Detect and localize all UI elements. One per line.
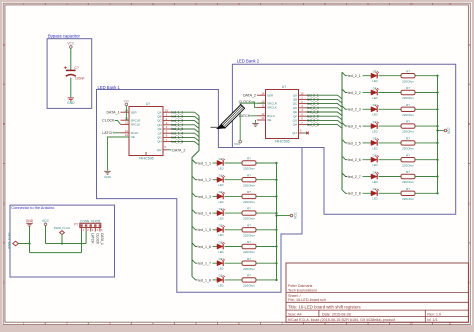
svg-text:74HC595: 74HC595	[138, 157, 153, 161]
ground GND (bypass)	[68, 98, 74, 101]
svg-text:C: C	[468, 201, 470, 205]
wire U2 SRCLR to VCC below	[240, 103, 265, 140]
U1 left pin names	[131, 110, 141, 139]
wire branch bank1 row 3	[192, 193, 198, 197]
junction bank1 row 8	[275, 279, 277, 281]
svg-text:LED: LED	[372, 113, 377, 117]
svg-text:Size: A4: Size: A4	[288, 312, 302, 316]
svg-text:QH: QH	[157, 140, 161, 144]
svg-text:D?: D?	[373, 187, 377, 191]
svg-text:LED: LED	[218, 166, 223, 170]
svg-text:CLOCK: CLOCK	[95, 233, 99, 245]
resistor R? 220Ohm bank1 row 5	[242, 228, 256, 232]
svg-text:A: A	[468, 43, 470, 47]
svg-text:led_2_7: led_2_7	[348, 175, 361, 179]
section box LED Bank 1	[97, 90, 303, 293]
svg-text:led_2_8: led_2_8	[348, 192, 361, 196]
svg-text:D?: D?	[219, 257, 223, 261]
section box Connector to the Arduino	[10, 205, 115, 277]
ground GND at U1 OE	[104, 171, 110, 174]
svg-text:13: 13	[261, 116, 265, 120]
power VCC bank1 rail	[290, 214, 293, 217]
svg-text:GND: GND	[67, 101, 75, 105]
svg-text:U?: U?	[282, 85, 286, 89]
wire LED to resistor bank1 row 3	[225, 195, 243, 197]
svg-text:R?: R?	[406, 103, 410, 107]
U2 left pins	[257, 95, 266, 120]
svg-text:R?: R?	[406, 170, 410, 174]
svg-text:LED: LED	[218, 250, 223, 254]
svg-text:D?: D?	[219, 224, 223, 228]
svg-text:led_1_1: led_1_1	[198, 161, 211, 165]
wire rail bank2 to VCC stub	[438, 130, 445, 132]
LED D? (led_1_2)	[217, 175, 225, 182]
svg-text:VCC: VCC	[67, 41, 75, 45]
svg-text:LED: LED	[372, 96, 377, 100]
wire GND rail to connector pin 1	[30, 252, 82, 254]
svg-text:220Ohm: 220Ohm	[243, 167, 255, 171]
wire LED to resistor bank2 row 2	[379, 92, 402, 94]
svg-text:led_2_2: led_2_2	[348, 91, 361, 95]
junction bank1 row 6	[275, 245, 277, 247]
junction bank2 row 5	[436, 142, 438, 144]
svg-text:led_2_1: led_2_1	[348, 74, 361, 78]
svg-text:OE: OE	[267, 118, 271, 122]
svg-text:R?: R?	[247, 223, 251, 227]
wire branch bank2 row 3	[342, 106, 348, 110]
svg-text:220Ohm: 220Ohm	[402, 197, 414, 201]
wire pin2 to VCC rail	[85, 232, 87, 244]
bus spine bank2 vertical	[341, 72, 343, 190]
wire rail bank2 vertical	[437, 76, 439, 194]
svg-text:D?: D?	[373, 70, 377, 74]
wire label to LED D3 bank1	[213, 195, 218, 197]
svg-text:220Ohm: 220Ohm	[243, 183, 255, 187]
wire label to LED D7 bank1	[213, 262, 218, 264]
U1 pin 9 QH' to DATA_2	[163, 149, 168, 151]
svg-text:14: 14	[261, 91, 265, 95]
wire LED to resistor bank1 row 1	[225, 162, 243, 164]
svg-text:U?: U?	[146, 102, 150, 106]
junction bank1 row 3	[275, 195, 277, 197]
wire label to LED D2 bank1	[213, 179, 218, 181]
svg-text:D?: D?	[219, 190, 223, 194]
wires U1 outputs to bus spine	[171, 112, 200, 145]
resistor R? 220Ohm bank2 row 1	[401, 74, 415, 78]
wire LED to resistor bank1 row 8	[225, 279, 243, 281]
svg-text:LED: LED	[372, 180, 377, 184]
svg-text:R?: R?	[247, 274, 251, 278]
svg-text:LED: LED	[372, 146, 377, 150]
svg-text:P?: P?	[74, 222, 78, 226]
LED D? (led_1_3)	[217, 192, 225, 199]
resistor R? 220Ohm bank2 row 2	[401, 90, 415, 94]
connector pins 1-5	[82, 228, 100, 232]
U1 left pins	[121, 112, 130, 137]
svg-text:11: 11	[262, 104, 265, 108]
svg-text:220Ohm: 220Ohm	[402, 79, 414, 83]
LED D? (led_1_5)	[217, 225, 225, 232]
wire branch bank2 row 4	[342, 123, 348, 127]
wire LED to resistor bank2 row 7	[379, 176, 402, 178]
resistor R? 220Ohm bank2 row 4	[401, 124, 415, 128]
svg-text:SRCLK: SRCLK	[131, 123, 141, 127]
wire LATCH to U2 RCLK	[251, 115, 258, 117]
svg-text:VCC: VCC	[124, 99, 130, 103]
svg-text:D?: D?	[373, 137, 377, 141]
svg-text:QH: QH	[293, 123, 297, 127]
svg-text:LED: LED	[218, 217, 223, 221]
LED D? (led_2_5)	[371, 139, 379, 146]
wire LED to resistor bank2 row 8	[379, 192, 402, 194]
wire branch bank1 row 8	[192, 276, 198, 280]
junction bank2 row 6	[436, 159, 438, 161]
U2 pin 9 no-connect	[299, 132, 304, 134]
svg-text:Tech Explorations: Tech Explorations	[288, 289, 317, 293]
power VCC at U1 SRCLR	[125, 103, 128, 106]
svg-text:D?: D?	[219, 274, 223, 278]
svg-text:GND: GND	[26, 219, 34, 223]
svg-text:led_2_6: led_2_6	[348, 158, 361, 162]
wire resistor to rail bank2 row 7	[415, 176, 438, 178]
junction bank1 row 5	[275, 229, 277, 231]
junction bank2 row 8	[436, 192, 438, 194]
wire label to LED D4 bank1	[213, 212, 218, 214]
wire resistor to rail bank2 row 4	[415, 125, 438, 127]
svg-text:220Ohm: 220Ohm	[402, 96, 414, 100]
svg-text:LED: LED	[218, 183, 223, 187]
svg-text:LED: LED	[372, 79, 377, 83]
svg-text:A: A	[3, 43, 5, 47]
wire label to LED bank2 row 3	[363, 108, 372, 110]
resistor R? 220Ohm bank1 row 8	[242, 278, 256, 282]
svg-text:D: D	[3, 281, 5, 285]
svg-text:Rev: 1.0: Rev: 1.0	[427, 312, 441, 316]
svg-text:LED Bank 1: LED Bank 1	[98, 85, 121, 90]
resistor R? 220Ohm bank2 row 7	[401, 174, 415, 178]
op-amp U2 74HC595 body	[266, 90, 299, 139]
svg-text:C: C	[3, 201, 5, 205]
U2 right pin names QA-QH	[292, 93, 298, 135]
svg-text:D?: D?	[219, 174, 223, 178]
svg-text:R?: R?	[406, 187, 410, 191]
wire label to LED bank2 row 8	[363, 192, 372, 194]
LED D? (led_2_6)	[371, 155, 379, 162]
svg-text:D?: D?	[219, 207, 223, 211]
svg-text:led_2_5: led_2_5	[348, 141, 361, 145]
svg-text:SER: SER	[267, 93, 273, 97]
svg-text:led_1_8: led_1_8	[172, 140, 184, 144]
junction bank1 row 4	[275, 212, 277, 214]
svg-text:led_1_2: led_1_2	[198, 178, 211, 182]
junction VCC rail	[61, 242, 63, 244]
U1 output labels LED_1_1..8	[172, 110, 184, 143]
wire label to LED bank2 row 6	[363, 159, 372, 161]
svg-text:LATCH: LATCH	[91, 233, 95, 244]
wire branch bank2 row 1	[342, 72, 348, 76]
resistor R? 220Ohm bank1 row 6	[242, 244, 256, 248]
LED D? (led_2_2)	[371, 88, 379, 95]
wire pin1 to GND rail	[81, 232, 83, 253]
junction bank2 row 1	[436, 75, 438, 77]
svg-text:Bypass capacitor: Bypass capacitor	[48, 34, 80, 39]
svg-text:74HC595: 74HC595	[274, 140, 289, 144]
svg-text:R?: R?	[247, 207, 251, 211]
junction bank2 row 3	[436, 108, 438, 110]
svg-text:KiCad E.D.A. kicad (2015-06-1: KiCad E.D.A. kicad (2015-06-15 BZR 6154,…	[288, 318, 395, 322]
svg-text:220Ohm: 220Ohm	[243, 217, 255, 221]
svg-text:led_1_4: led_1_4	[198, 212, 211, 216]
wire label to LED D8 bank1	[213, 279, 218, 281]
LED D? (led_2_4)	[371, 122, 379, 129]
svg-text:R?: R?	[406, 153, 410, 157]
svg-text:GND: GND	[104, 175, 112, 179]
svg-text:LED: LED	[372, 130, 377, 134]
svg-text:led_2_4: led_2_4	[348, 125, 361, 129]
wire LED to resistor bank1 row 7	[225, 262, 243, 264]
svg-text:Title: 16-LED board with shift: Title: 16-LED board with shift registers	[288, 305, 361, 310]
U2 output labels led_2_1..8	[307, 93, 319, 126]
svg-text:R?: R?	[247, 173, 251, 177]
svg-text:VCC: VCC	[234, 142, 241, 146]
svg-text:QH': QH'	[157, 148, 162, 152]
svg-text:D?: D?	[373, 154, 377, 158]
U2 right pins QA-QH	[299, 95, 307, 124]
svg-text:VCC: VCC	[294, 211, 298, 218]
wire SRCLR to VCC	[126, 106, 129, 120]
junction GND/PWR_FLAG	[28, 242, 30, 244]
title block frame	[286, 263, 468, 322]
svg-text:R?: R?	[406, 69, 410, 73]
wire label to LED bank2 row 2	[363, 92, 372, 94]
title block texts	[288, 284, 326, 302]
wire LED to resistor bank2 row 5	[379, 142, 402, 144]
wire VCC stem	[45, 226, 47, 244]
LED D? (led_1_1)	[217, 159, 225, 166]
resistor R? 220Ohm bank2 row 5	[401, 141, 415, 145]
wire resistor to rail bank1 row 6	[256, 246, 277, 248]
wire resistor to rail bank2 row 8	[415, 192, 438, 194]
svg-text:LATCH: LATCH	[102, 131, 114, 135]
wire branch bank1 row 5	[192, 226, 198, 230]
svg-text:led_1_8: led_1_8	[198, 278, 211, 282]
wire resistor to rail bank1 row 3	[256, 195, 277, 197]
op-amp U1 74HC595 body	[129, 107, 163, 156]
wire branch bank1 row 1	[192, 160, 198, 164]
resistor R? 220Ohm bank1 row 1	[242, 161, 256, 165]
U2 left pin names	[267, 93, 277, 122]
svg-text:R?: R?	[406, 120, 410, 124]
LED D? (led_1_8)	[217, 276, 225, 283]
svg-text:B: B	[468, 122, 470, 126]
wire resistor to rail bank2 row 6	[415, 159, 438, 161]
resistor R? 220Ohm bank1 row 7	[242, 261, 256, 265]
LED D? (led_2_1)	[371, 71, 379, 78]
svg-text:220Ohm: 220Ohm	[243, 284, 255, 288]
wire LED to resistor bank1 row 2	[225, 179, 243, 181]
svg-text:led_1_6: led_1_6	[198, 245, 211, 249]
junction bank1 row 1	[275, 162, 277, 164]
svg-text:VCC: VCC	[447, 126, 451, 133]
svg-text:220Ohm: 220Ohm	[402, 163, 414, 167]
wire LED to resistor bank2 row 6	[379, 159, 402, 161]
svg-text:led_1_5: led_1_5	[198, 228, 211, 232]
svg-text:R?: R?	[406, 137, 410, 141]
svg-text:D?: D?	[373, 86, 377, 90]
wire label to LED bank2 row 4	[363, 125, 372, 127]
svg-text:led_2_3: led_2_3	[348, 108, 361, 112]
wire label to LED D6 bank1	[213, 246, 218, 248]
svg-text:CONN_01X05: CONN_01X05	[80, 219, 101, 223]
svg-text:R?: R?	[406, 86, 410, 90]
resistor R? 220Ohm bank2 row 8	[401, 191, 415, 195]
wire resistor to rail bank1 row 8	[256, 279, 277, 281]
junction bank1 row 2	[275, 179, 277, 181]
wire label to LED bank2 row 1	[363, 75, 372, 77]
svg-text:Id: 1/1: Id: 1/1	[427, 318, 437, 322]
wire OE to GND	[108, 137, 130, 171]
resistor R? 220Ohm bank1 row 4	[242, 211, 256, 215]
wire LED to resistor bank1 row 5	[225, 229, 243, 231]
resistor R? 220Ohm bank2 row 3	[401, 107, 415, 111]
LED D? (led_1_6)	[217, 242, 225, 249]
wire C1 to GND	[70, 78, 72, 98]
capacitor C? 100nF	[64, 66, 85, 81]
svg-text:R?: R?	[247, 190, 251, 194]
wire branch bank2 row 5	[342, 139, 348, 143]
ground GND at U2 OE	[255, 120, 257, 123]
svg-text:PWR_FLAG: PWR_FLAG	[54, 226, 71, 230]
svg-text:Date: 2015-08-28: Date: 2015-08-28	[322, 312, 351, 316]
wire PWR_FLAG left to GND stem	[19, 243, 30, 245]
wire resistor to rail bank2 row 1	[415, 75, 438, 77]
U1 right pins QA-QH	[163, 112, 171, 141]
svg-text:220Ohm: 220Ohm	[243, 267, 255, 271]
wire label to LED bank2 row 5	[363, 142, 372, 144]
svg-text:LED: LED	[218, 233, 223, 237]
LED D? (led_1_4)	[217, 209, 225, 216]
wire LED to resistor bank2 row 3	[379, 108, 402, 110]
wire resistor to rail bank1 row 2	[256, 179, 277, 181]
wire resistor to rail bank1 row 5	[256, 229, 277, 231]
wire resistor to rail bank1 row 4	[256, 212, 277, 214]
wire label to LED bank2 row 7	[363, 176, 372, 178]
pencil cursor	[211, 105, 245, 129]
wire label to LED D5 bank1	[213, 229, 218, 231]
svg-text:D?: D?	[373, 170, 377, 174]
junction bank1 row 7	[275, 262, 277, 264]
wire branch bank2 row 8	[342, 190, 348, 194]
wire resistor to rail bank1 row 7	[256, 262, 277, 264]
svg-text:10: 10	[409, 2, 413, 6]
wire branch bank1 row 4	[192, 210, 198, 214]
svg-text:220Ohm: 220Ohm	[402, 180, 414, 184]
section box Bypass capacitor	[47, 39, 92, 109]
resistor R? 220Ohm bank1 row 2	[242, 178, 256, 182]
svg-text:220Ohm: 220Ohm	[402, 147, 414, 151]
power VCC at U2 SRCLR (inverted)	[239, 140, 242, 143]
wire branch bank1 row 7	[192, 260, 198, 264]
svg-text:D?: D?	[219, 157, 223, 161]
svg-text:LED Bank 2: LED Bank 2	[237, 59, 260, 64]
svg-text:C?: C?	[74, 66, 78, 70]
wire VCC to C1	[70, 48, 72, 70]
svg-text:led_1_7: led_1_7	[198, 262, 211, 266]
wire LED to resistor bank1 row 4	[225, 212, 243, 214]
svg-text:220Ohm: 220Ohm	[402, 130, 414, 134]
wire rail bank1 to VCC stub	[277, 215, 291, 217]
svg-text:220Ohm: 220Ohm	[243, 250, 255, 254]
junction bank2 row 7	[436, 175, 438, 177]
svg-text:B: B	[3, 122, 5, 126]
wire branch bank2 row 6	[342, 156, 348, 160]
LED D? (led_2_7)	[371, 172, 379, 179]
power VCC bank2 rail	[444, 129, 447, 132]
svg-text:QH': QH'	[292, 131, 297, 135]
svg-text:PWR_FLAG: PWR_FLAG	[7, 232, 11, 249]
svg-text:OE: OE	[131, 135, 135, 139]
wire branch bank2 row 7	[342, 173, 348, 177]
LED D? (led_2_3)	[371, 105, 379, 112]
svg-text:100nF: 100nF	[75, 76, 85, 80]
svg-text:Connector to the Arduino: Connector to the Arduino	[11, 205, 54, 210]
wire LATCH to RCLK	[114, 132, 121, 134]
svg-text:220Ohm: 220Ohm	[243, 233, 255, 237]
wire resistor to rail bank1 row 1	[256, 162, 277, 164]
svg-text:R?: R?	[247, 157, 251, 161]
resistor R? 220Ohm bank1 row 3	[242, 194, 256, 198]
svg-text:File: 16-LED-board.sch: File: 16-LED-board.sch	[288, 298, 326, 302]
junction bank2 row 4	[436, 125, 438, 127]
section box LED Bank 2	[232, 64, 455, 214]
wire branch bank2 row 2	[342, 89, 348, 93]
wire LED to resistor bank1 row 6	[225, 246, 243, 248]
wire LED to resistor bank2 row 1	[379, 75, 402, 77]
bus spine bank1 vertical	[192, 116, 199, 277]
LED D? (led_2_8)	[371, 189, 379, 196]
svg-text:DATA_2: DATA_2	[243, 93, 256, 97]
svg-text:11: 11	[125, 121, 128, 125]
LED D? (led_1_7)	[217, 259, 225, 266]
svg-text:LED: LED	[218, 283, 223, 287]
svg-text:D?: D?	[373, 120, 377, 124]
wire branch bank1 row 2	[192, 176, 198, 180]
wire resistor to rail bank2 row 5	[415, 142, 438, 144]
svg-text:VCC: VCC	[42, 219, 50, 223]
U1 pin 8 GND below	[145, 152, 147, 156]
svg-text:R?: R?	[247, 257, 251, 261]
wire CLOCK to U2 SRCLK	[251, 102, 257, 108]
svg-text:R?: R?	[247, 240, 251, 244]
wire resistor to rail bank2 row 2	[415, 92, 438, 94]
svg-text:SER: SER	[131, 110, 137, 114]
wire VCC rail to connector pin 2	[46, 243, 87, 245]
svg-text:CLOCK: CLOCK	[102, 119, 115, 123]
svg-text:LED: LED	[372, 163, 377, 167]
svg-text:220Ohm: 220Ohm	[243, 200, 255, 204]
svg-text:D?: D?	[373, 103, 377, 107]
svg-text:DATA_2: DATA_2	[172, 148, 185, 152]
svg-text:led_2_8: led_2_8	[307, 123, 319, 127]
junction bank2 row 2	[436, 91, 438, 93]
wire resistor to rail bank2 row 3	[415, 108, 438, 110]
wire PWR_FLAG 2 stem	[61, 235, 63, 244]
svg-text:DATA_1: DATA_1	[100, 233, 104, 245]
svg-text:11: 11	[448, 2, 451, 6]
svg-text:LED: LED	[218, 267, 223, 271]
svg-text:SRCLK: SRCLK	[267, 106, 277, 110]
wire LED to resistor bank2 row 4	[379, 125, 402, 127]
